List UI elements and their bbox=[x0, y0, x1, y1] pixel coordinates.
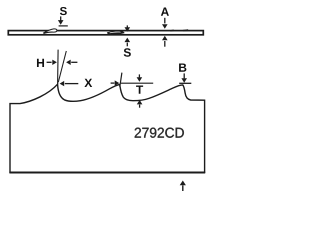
arrow S2 down bbox=[125, 25, 131, 31]
arrow S2 up bbox=[125, 38, 131, 47]
arrow T up bbox=[137, 100, 143, 108]
arrow H left bbox=[66, 60, 77, 65]
tooth2 tip reference line bbox=[121, 82, 154, 84]
arrow bottom up bbox=[180, 181, 186, 192]
arrow X left bbox=[60, 81, 79, 86]
arrow B down bbox=[181, 73, 187, 82]
label S (thickness at set, middle) bbox=[124, 48, 131, 56]
label H bbox=[37, 59, 44, 67]
label A bbox=[161, 8, 169, 16]
tooth1 set face slanted line bbox=[58, 51, 66, 82]
arrow A down bbox=[162, 18, 168, 29]
arrow T down bbox=[137, 74, 143, 81]
arrow A up bbox=[162, 36, 168, 47]
tooth2 face construction line bbox=[120, 73, 122, 87]
tick above band under S arrow bbox=[59, 25, 68, 27]
arrow X right bbox=[111, 80, 120, 85]
small set mark right 2 bbox=[183, 29, 188, 32]
box bottom emphasis bbox=[9, 172, 205, 174]
small set mark right 1 bbox=[171, 29, 174, 32]
arrow H right bbox=[47, 60, 57, 65]
part number 2792CD bbox=[135, 128, 184, 138]
set tooth bump middle bbox=[107, 31, 131, 35]
label S (set, left) bbox=[60, 7, 67, 15]
arrow S down bbox=[58, 16, 64, 24]
tooth1 face construction line vertical bbox=[57, 50, 60, 84]
blade band side view body bbox=[8, 31, 203, 35]
label X bbox=[84, 79, 92, 87]
set tooth bump left bbox=[44, 29, 57, 34]
label B bbox=[179, 63, 186, 71]
label T bbox=[136, 86, 143, 94]
tooth3 tip tick bbox=[179, 82, 191, 84]
blade body box with tooth profile top edge bbox=[10, 84, 205, 172]
